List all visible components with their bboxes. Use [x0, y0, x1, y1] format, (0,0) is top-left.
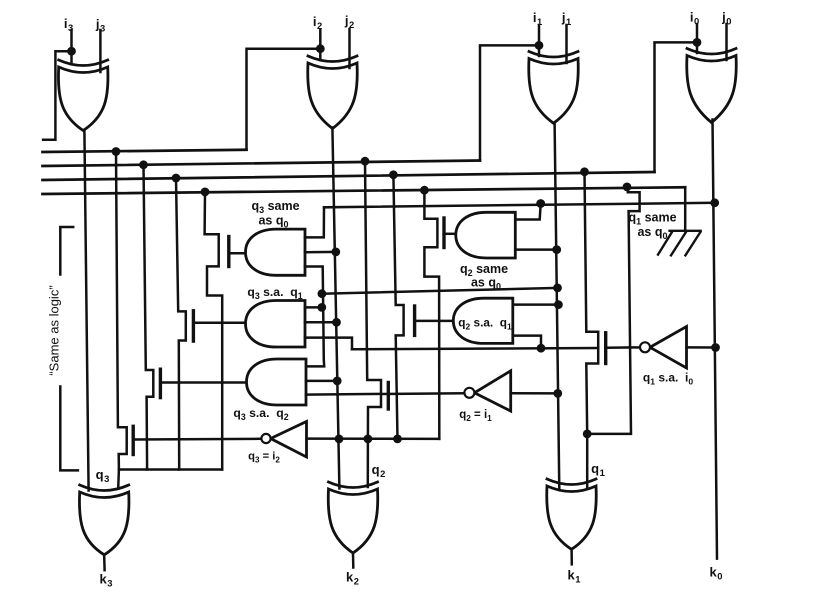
- node L1 junction: [112, 147, 121, 156]
- AND gate A5 (q2 s.a. q1): [453, 298, 513, 343]
- node V2 junctions: [331, 248, 340, 257]
- wire A1 output to Q1 gate: [231, 252, 246, 255]
- wire tap V205 (L4 to Q1 channel): [205, 192, 223, 470]
- input stub i1: [538, 25, 541, 56]
- wire i2 tap to bus L1: [247, 49, 321, 150]
- wire tap V365 (L2 to Q7 channel): [365, 161, 381, 439]
- AND gate A1 (q3 same as q0): [246, 229, 306, 275]
- wire A4 output to Q5 gate: [446, 233, 457, 236]
- wire N3 input to V714: [687, 346, 716, 349]
- inverter N2 (q2 = i1): [474, 371, 510, 411]
- wire bus L4: [43, 187, 686, 194]
- XOR gate U2 (inputs i1,j1): [529, 59, 579, 124]
- node N junction: [537, 344, 546, 353]
- node N3 input dot: [711, 343, 720, 352]
- AND gate A4 (q2 same as q0): [456, 212, 516, 258]
- wire A2 pin2 to V2: [305, 321, 337, 324]
- node V557 junctions: [552, 245, 561, 254]
- transistor Q1 gate bar: [227, 237, 230, 267]
- XOR gate U6 (k2): [328, 489, 378, 553]
- XOR gate U1 (inputs i0,j0): [687, 56, 737, 123]
- transistor Q2 gate bar: [192, 311, 195, 341]
- wire tap V585 (L3 to Q8 channel): [585, 172, 599, 434]
- wire tap V424 (L4 to Q5 channel): [424, 190, 439, 439]
- wire i3 tap to left rail: [43, 51, 71, 140]
- wire bus L2: [43, 161, 481, 167]
- node i2 tap dot: [316, 44, 325, 53]
- inverter N3 (q1 s.a. i0): [650, 327, 687, 369]
- node i3 tap dot: [67, 47, 76, 56]
- wire A5 output to Q6 gate: [417, 320, 456, 323]
- transistor Q6 gate bar: [413, 306, 416, 335]
- XOR gate U7 (k1): [547, 486, 597, 549]
- wire bus L3: [43, 172, 655, 180]
- transistor Q4 gate bar: [131, 426, 134, 454]
- transistor Q3 gate bar: [159, 369, 162, 397]
- input stub i3: [70, 30, 73, 64]
- transistor Q5 gate bar: [442, 218, 445, 248]
- wire N2 input to V557: [511, 392, 558, 395]
- wire A2 pin3 to net N: [305, 338, 352, 350]
- XOR gate U4 (inputs i3,j3): [58, 67, 108, 131]
- XOR gate U3 (inputs i2,j2): [308, 63, 358, 129]
- wire U6 output stub: [352, 553, 355, 568]
- bracket (Same as logic): [60, 227, 78, 470]
- wire U7 output stub: [570, 550, 573, 564]
- wire net V714 (U1 output down to k0): [713, 120, 718, 559]
- wire N3 output to Q8 gate: [607, 346, 640, 349]
- wire A1 pin2 to V2: [305, 251, 336, 254]
- wire A3 output to Q3 gate: [162, 381, 247, 384]
- wire tap V629 (L4 down): [587, 187, 639, 434]
- XOR gate U5 (k3): [79, 492, 129, 555]
- transistor Q8 gate bar: [604, 333, 607, 364]
- wire A1 pin3 down net V1: [305, 267, 324, 367]
- node P end dot: [553, 284, 562, 293]
- wire net P (V1 to q1): [322, 288, 558, 294]
- wire A4 pin2 to V557: [515, 248, 556, 251]
- AND gate A2 (q3 s.a. q1): [246, 301, 306, 348]
- wire net V557 (U2 output down to U7): [555, 124, 560, 490]
- input stub j1: [565, 25, 568, 63]
- node i0 tap dot: [693, 38, 702, 47]
- wire bus L1: [43, 150, 247, 152]
- wire A2 pin1 to V1: [305, 306, 322, 309]
- wire tap V393 (L3 to Q6 channel): [393, 175, 403, 439]
- input stub i2: [319, 30, 322, 60]
- input stub j3: [99, 30, 102, 72]
- wire A2 output to Q2 gate: [195, 322, 246, 325]
- wire i1 tap to bus L2: [480, 45, 539, 160]
- wire tap V116 (L1 to Q4 channel): [116, 152, 127, 470]
- node L3 junctions: [172, 174, 181, 183]
- wire N1 output to Q4 gate: [135, 438, 262, 441]
- wire U6 right input: [367, 439, 370, 487]
- input stub i0: [696, 24, 699, 53]
- ground (earth hatch): [658, 231, 701, 256]
- node net M junctions: [536, 199, 545, 208]
- node V1 junctions: [318, 289, 327, 298]
- wire net N: [352, 348, 598, 349]
- wire net M (q0 row): [324, 203, 715, 208]
- wire U5 output stub: [103, 556, 106, 570]
- AND gate A3 (q3 s.a. q2): [247, 359, 307, 405]
- wire XOR U4 output down to U5 input: [84, 131, 88, 491]
- wire A3 pin3 (net q2) to inverter N2: [306, 393, 465, 394]
- wire i0 tap to bus L3: [655, 42, 698, 172]
- wire A3 pin2 to V2: [306, 380, 337, 383]
- node L4 junctions: [201, 188, 210, 197]
- wire L4 drop to earth symbol: [684, 187, 687, 231]
- node q1 collector junction: [583, 430, 592, 439]
- node L2 junctions: [139, 160, 148, 169]
- input stub j0: [725, 24, 728, 60]
- wire N1 input / q2 collector line: [307, 437, 440, 440]
- input stub j2: [348, 29, 351, 68]
- inverter N1 (q3 = i2): [271, 422, 307, 458]
- node i1 tap dot: [535, 41, 544, 50]
- wire q3 collector to U5 input: [118, 470, 222, 489]
- wire tap V143 (L2 to Q3 channel): [144, 165, 154, 470]
- wire A5 pin2 to net N: [513, 336, 541, 349]
- wire A1 pin1 to net M: [305, 207, 324, 237]
- wire q1 collector to U7 input: [586, 434, 589, 489]
- wire net V2 (U3 output down to U6): [332, 128, 339, 489]
- svg-text:“Same as logic”: “Same as logic”: [47, 285, 62, 375]
- transistor Q7 gate bar: [387, 383, 390, 410]
- wire tap V176 (L3 to Q2 channel): [176, 178, 186, 470]
- wire A4 pin1 to net M: [515, 204, 540, 220]
- wire A5 pin1 to V557: [513, 303, 559, 306]
- node collector junctions: [335, 435, 344, 444]
